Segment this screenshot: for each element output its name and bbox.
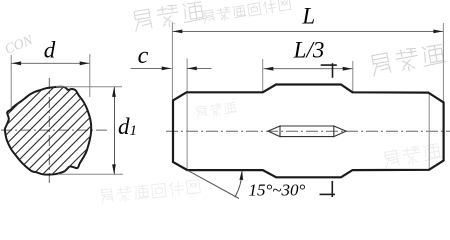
extension line L/3 left — [262, 59, 264, 92]
extension line left chamfer edge (c) — [186, 59, 188, 171]
hatching — [0, 74, 200, 182]
dimension L/3 line — [264, 68, 353, 70]
svg-text:15°~30°: 15°~30° — [249, 181, 306, 200]
dimension d1 line — [114, 87, 116, 174]
tick mark lower (below pin) — [320, 181, 336, 197]
chamfer angle arc — [235, 171, 242, 198]
extension line right end face (L) — [442, 23, 444, 103]
dimension d1 extension lines — [56, 86, 122, 88]
watermark bottom-right — [383, 142, 441, 168]
pin body outline — [173, 85, 444, 178]
svg-text:c: c — [138, 43, 149, 69]
tick mark upper (on L/3 line) — [321, 63, 337, 78]
dimension d line — [11, 62, 89, 64]
extension line L/3 right — [352, 61, 354, 92]
dimension c lines — [131, 67, 172, 69]
dimension L line — [172, 30, 443, 32]
centerline vertical (cross-section) — [48, 78, 50, 183]
svg-text:L/3: L/3 — [293, 38, 325, 63]
centerline horizontal (cross-section) — [1, 129, 108, 131]
centerline horizontal (side view) — [166, 130, 450, 132]
svg-text:d: d — [44, 38, 56, 63]
dimension d extension lines — [10, 55, 12, 108]
right chamfer edge line — [428, 93, 430, 171]
watermark right — [370, 43, 446, 77]
watermark top-center — [133, 0, 205, 32]
groove (side view) — [268, 126, 346, 137]
chamfer angle leader line — [187, 170, 239, 198]
extension line left end face (L/c) — [171, 23, 173, 101]
svg-text:L: L — [301, 3, 315, 28]
watermark bottom-center — [100, 179, 200, 204]
watermark mid-left faint — [196, 101, 237, 118]
